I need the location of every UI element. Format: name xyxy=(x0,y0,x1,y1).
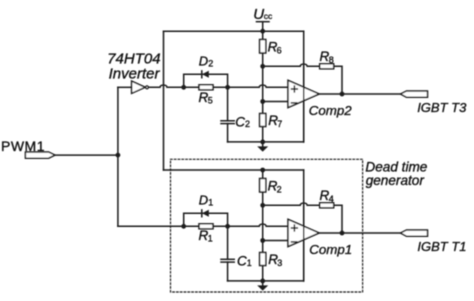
junction divider/R4 tap xyxy=(260,203,265,208)
svg-text:1: 1 xyxy=(208,233,213,243)
label Dead time generator xyxy=(365,160,427,188)
junction divider/R8 tap xyxy=(260,64,265,69)
junction R5/C2 xyxy=(225,85,230,90)
wire R8 left with hop over power vertical xyxy=(263,64,320,66)
wire top section ground rail xyxy=(228,141,304,143)
wire D2 branch xyxy=(184,74,228,87)
wire comp2 output xyxy=(319,93,400,95)
resistor R4 xyxy=(320,188,334,208)
svg-text:C: C xyxy=(235,115,245,130)
svg-text:4: 4 xyxy=(329,194,334,204)
junction ground bottom xyxy=(260,279,265,284)
svg-text:D: D xyxy=(199,192,208,207)
wire bottom section top rail xyxy=(164,169,304,171)
wire comp2 power vertical overlay xyxy=(303,66,305,142)
wire R8 right to output xyxy=(334,66,342,94)
svg-text:IGBT T1: IGBT T1 xyxy=(417,239,466,254)
junction D1 left xyxy=(181,224,186,229)
wire PWM1 xyxy=(55,154,118,156)
ground symbol top xyxy=(257,142,268,152)
wire PWM1 vertical xyxy=(117,87,119,226)
wire comp1 output xyxy=(319,232,400,234)
junction rail/R2 xyxy=(260,168,265,173)
junction D2 left xyxy=(181,85,186,90)
svg-text:Comp1: Comp1 xyxy=(309,242,352,257)
wire comp1 power vertical overlay xyxy=(303,205,305,281)
svg-text:6: 6 xyxy=(277,46,282,56)
op-amp Comp2 xyxy=(288,80,352,118)
junction R8/output xyxy=(340,92,345,97)
node Ucc label xyxy=(253,6,273,23)
output flag IGBT T3 xyxy=(401,91,468,115)
svg-text:D: D xyxy=(199,53,208,68)
wire comparator1 power vertical xyxy=(303,170,305,281)
svg-text:3: 3 xyxy=(277,258,282,268)
label 74HT04 Inverter xyxy=(107,50,160,82)
resistor R8 xyxy=(320,49,334,69)
input PWM1 xyxy=(1,138,45,154)
junction R1/C1 xyxy=(225,224,230,229)
wire comp2 minus input xyxy=(263,101,288,103)
diode D1 xyxy=(199,192,214,216)
inverter output bubble xyxy=(146,86,149,89)
svg-text:2: 2 xyxy=(277,185,282,195)
svg-text:Comp2: Comp2 xyxy=(309,103,352,118)
junction Ucc/rail xyxy=(260,29,265,34)
wire R2-R3 divider vertical xyxy=(262,170,264,281)
Ucc power symbol bar xyxy=(257,21,270,23)
svg-text:cc: cc xyxy=(264,11,273,21)
wire comparator2 power vertical xyxy=(303,31,305,142)
capacitor C1 xyxy=(221,226,252,281)
svg-text:1: 1 xyxy=(247,258,252,268)
junction ground top xyxy=(260,140,265,145)
junction PWM1 xyxy=(116,153,121,158)
wire bottom RC line with hop xyxy=(118,224,288,226)
wire inverter output / RC line with hops xyxy=(149,85,289,87)
junction divider/minus input xyxy=(260,99,265,104)
wire R4 right to output xyxy=(334,205,342,233)
resistor R6 xyxy=(260,40,282,56)
input flag PWM1 xyxy=(25,152,55,158)
junction R4/output xyxy=(340,231,345,236)
resistor R7 xyxy=(260,113,283,129)
svg-text:C: C xyxy=(237,253,247,268)
wire R6-R7 divider vertical xyxy=(262,31,264,142)
svg-text:1: 1 xyxy=(208,198,213,208)
wire comp1 minus input xyxy=(263,240,288,242)
op-amp Comp1 xyxy=(288,219,352,257)
resistor R5 xyxy=(199,85,214,106)
wire bottom section ground rail xyxy=(228,280,304,282)
ground symbol bottom xyxy=(257,281,268,291)
svg-text:2: 2 xyxy=(245,119,250,129)
resistor R1 xyxy=(199,224,214,244)
dead time generator dashed box xyxy=(171,159,363,292)
resistor R3 xyxy=(260,252,283,268)
wire Ucc stub xyxy=(262,22,264,32)
wire left Ucc branch vertical xyxy=(163,31,165,170)
junction divider/comp1 minus xyxy=(260,238,265,243)
svg-text:8: 8 xyxy=(329,55,334,65)
diode D2 xyxy=(199,53,214,77)
wire R4 left with hop over power vertical xyxy=(263,203,320,205)
svg-text:U: U xyxy=(253,6,264,23)
output flag IGBT T1 xyxy=(401,230,467,254)
svg-text:IGBT T3: IGBT T3 xyxy=(417,100,467,115)
resistor R2 xyxy=(260,179,282,195)
wire D1 branch xyxy=(184,213,228,226)
inverter U2 triangle xyxy=(132,81,146,93)
svg-text:7: 7 xyxy=(277,119,282,129)
wire inverter input xyxy=(118,86,132,88)
svg-text:2: 2 xyxy=(208,59,213,69)
wire Ucc top rail xyxy=(164,30,304,32)
svg-text:5: 5 xyxy=(208,95,213,105)
capacitor C2 xyxy=(221,87,250,142)
svg-text:generator: generator xyxy=(366,173,425,188)
svg-text:Inverter: Inverter xyxy=(109,65,161,82)
